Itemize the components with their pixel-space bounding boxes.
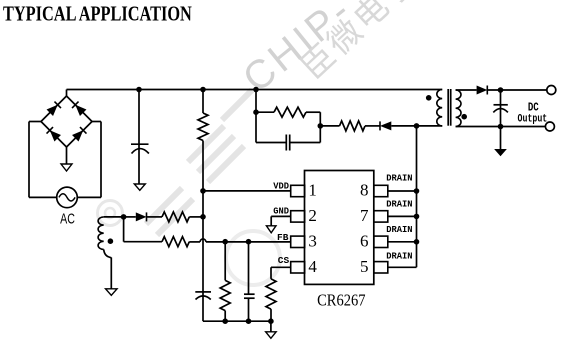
svg-text:AC: AC xyxy=(60,210,75,227)
svg-text:5: 5 xyxy=(360,257,369,276)
svg-text:DRAIN: DRAIN xyxy=(386,172,412,183)
svg-text:Output: Output xyxy=(518,112,548,124)
svg-text:DRAIN: DRAIN xyxy=(386,250,412,261)
svg-text:DRAIN: DRAIN xyxy=(386,224,412,235)
svg-text:DRAIN: DRAIN xyxy=(386,198,412,209)
svg-text:8: 8 xyxy=(360,181,369,200)
svg-text:VDD: VDD xyxy=(273,180,289,191)
svg-text:1: 1 xyxy=(308,181,317,200)
svg-text:2: 2 xyxy=(308,206,317,225)
svg-text:GND: GND xyxy=(273,205,289,216)
svg-text:3: 3 xyxy=(308,232,317,251)
svg-text:CR6267: CR6267 xyxy=(317,292,365,310)
svg-text:CS: CS xyxy=(278,255,290,266)
svg-text:7: 7 xyxy=(360,206,369,225)
svg-text:TYPICAL APPLICATION: TYPICAL APPLICATION xyxy=(3,2,192,26)
svg-text:6: 6 xyxy=(360,232,369,251)
svg-text:4: 4 xyxy=(308,257,317,276)
